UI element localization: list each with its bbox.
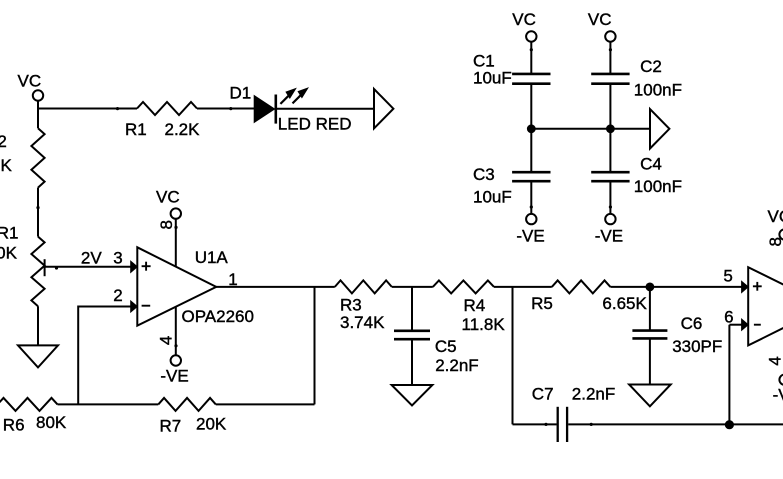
svg-text:2.2nF: 2.2nF	[572, 385, 615, 404]
svg-text:VC: VC	[512, 10, 536, 29]
svg-text:LED RED: LED RED	[278, 115, 352, 134]
svg-text:2.2K: 2.2K	[165, 120, 201, 139]
svg-text:80K: 80K	[36, 413, 67, 432]
svg-text:R4: R4	[464, 296, 486, 315]
svg-text:100nF: 100nF	[634, 81, 682, 100]
svg-text:C6: C6	[681, 314, 703, 333]
svg-text:C5: C5	[435, 337, 457, 356]
svg-text:VC: VC	[588, 10, 612, 29]
svg-text:OPA2260: OPA2260	[182, 307, 254, 326]
svg-text:4: 4	[765, 356, 783, 365]
svg-text:-VE: -VE	[516, 227, 544, 246]
svg-text:-VE: -VE	[160, 367, 188, 386]
svg-text:1: 1	[228, 270, 237, 289]
svg-text:VC: VC	[18, 71, 42, 90]
svg-text:C7: C7	[532, 385, 554, 404]
svg-text:10uF: 10uF	[473, 69, 512, 88]
svg-text:R7: R7	[160, 416, 182, 435]
svg-text:3: 3	[113, 248, 122, 267]
svg-text:R1: R1	[0, 223, 19, 242]
svg-text:0K: 0K	[0, 244, 18, 263]
svg-text:2.2nF: 2.2nF	[435, 356, 478, 375]
svg-text:6: 6	[724, 307, 733, 326]
svg-text:C3: C3	[473, 165, 495, 184]
svg-text:2: 2	[0, 132, 7, 151]
svg-text:100nF: 100nF	[634, 177, 682, 196]
svg-text:4: 4	[156, 336, 175, 345]
svg-text:2: 2	[113, 286, 122, 305]
svg-text:VC: VC	[156, 188, 180, 207]
svg-text:8: 8	[157, 220, 176, 229]
svg-text:VC: VC	[768, 207, 783, 226]
svg-text:R5: R5	[531, 294, 553, 313]
svg-text:K: K	[0, 156, 12, 175]
svg-text:5: 5	[723, 267, 732, 286]
svg-text:6.65K: 6.65K	[602, 294, 647, 313]
svg-text:R3: R3	[340, 295, 362, 314]
svg-text:C4: C4	[640, 155, 662, 174]
svg-text:C1: C1	[473, 51, 495, 70]
svg-text:R6: R6	[3, 415, 25, 434]
svg-text:11.8K: 11.8K	[462, 315, 506, 334]
svg-text:D1: D1	[230, 83, 252, 102]
svg-text:-VE: -VE	[595, 227, 623, 246]
svg-text:20K: 20K	[196, 414, 227, 433]
svg-text:8: 8	[766, 237, 783, 246]
svg-text:10uF: 10uF	[473, 188, 512, 207]
svg-text:-VE: -VE	[773, 385, 783, 404]
svg-text:330PF: 330PF	[672, 337, 722, 356]
svg-text:3.74K: 3.74K	[340, 313, 385, 332]
svg-text:U1A: U1A	[195, 248, 229, 267]
svg-text:2V: 2V	[81, 248, 102, 267]
svg-text:R1: R1	[125, 120, 147, 139]
svg-text:C2: C2	[640, 57, 662, 76]
